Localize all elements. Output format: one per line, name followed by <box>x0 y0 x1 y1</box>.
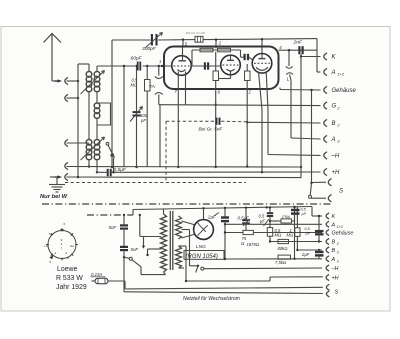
mains chain line <box>87 214 133 216</box>
svg-text:(RGN 1054): (RGN 1054) <box>186 254 218 260</box>
svg-text:A: A <box>331 257 336 263</box>
wire block leg x268 <box>266 71 268 154</box>
wire 2uF column <box>224 208 226 260</box>
V1 heater leg <box>185 72 187 105</box>
wire feed x311 <box>310 89 312 183</box>
wire A3 row <box>291 138 321 139</box>
wire B2 row bottom <box>270 241 322 243</box>
capacitor 0,5uF geh <box>291 210 300 214</box>
V2 anode <box>227 55 234 60</box>
svg-text:Ha: Ha <box>70 244 74 248</box>
terminal K top <box>324 53 337 61</box>
wire cap b2 column <box>318 215 320 243</box>
terminal K bottom <box>326 213 335 220</box>
svg-text:A: A <box>331 70 336 76</box>
svg-text:0,5: 0,5 <box>305 227 311 231</box>
terminal G2 top <box>324 102 341 110</box>
node 4 label <box>279 45 282 50</box>
label Jahr 1929 <box>56 284 87 291</box>
label tube data <box>186 31 206 35</box>
wire minusH row bottom <box>204 267 322 270</box>
terminal B3 bottom <box>326 247 340 255</box>
V3 cathode leg <box>259 72 263 173</box>
svg-text:1+2: 1+2 <box>337 72 345 77</box>
wire S row lower <box>124 292 323 294</box>
wire G2 row <box>159 104 321 107</box>
pin 7 label <box>175 89 178 94</box>
node 1 label <box>159 59 161 64</box>
tube block <box>164 47 279 90</box>
capacitor 0,5uF bus <box>108 169 111 176</box>
svg-text:LNG: LNG <box>196 244 206 250</box>
valve socket inner labels <box>44 222 74 264</box>
HV taps <box>179 246 188 282</box>
coupling capacitor C2 <box>241 54 254 60</box>
capacitor 2uF ps <box>221 218 229 222</box>
wire plusH row bottom <box>186 277 323 281</box>
wire box top right <box>191 206 313 210</box>
wire fuse right <box>108 281 125 289</box>
wire cap a3 column <box>318 249 320 259</box>
resistor Rk2 <box>213 71 219 81</box>
label 5nF a <box>109 225 117 230</box>
label 300pF <box>142 46 157 52</box>
wire 500pF col <box>135 65 137 167</box>
label R 533 W <box>56 275 83 282</box>
wire J3 to Tr2 <box>67 142 90 144</box>
valve socket pins <box>46 228 78 260</box>
label 2nF <box>293 40 303 46</box>
label Loewe <box>57 266 77 273</box>
label Bei Gr 5nF <box>199 127 224 132</box>
rectifier V4 <box>194 220 214 240</box>
transformer Tr1 secondary coil <box>94 66 100 92</box>
terminal B2 top <box>324 119 341 127</box>
wire Gehaeuse row <box>280 88 321 90</box>
svg-text:L: L <box>287 77 290 83</box>
pin anode V3 wire <box>261 38 263 54</box>
triode V1 <box>172 56 192 76</box>
svg-text:S: S <box>339 189 343 195</box>
terminal pH top <box>324 168 340 176</box>
V2 cathode leg <box>219 71 231 79</box>
V4 filament <box>198 223 208 236</box>
wire 60pF to tube block <box>143 65 173 67</box>
svg-text:Loewe: Loewe <box>57 266 77 273</box>
svg-text:G: G <box>332 104 337 110</box>
V3 grid <box>254 62 270 64</box>
wire bus y177 <box>67 176 302 178</box>
terminal S bottom <box>326 284 338 297</box>
svg-text:5nF: 5nF <box>109 225 117 230</box>
switch S mains <box>309 182 327 199</box>
V2 grid <box>223 64 239 66</box>
ground <box>49 185 65 193</box>
label 5nF b <box>131 247 139 252</box>
terminal A12 top <box>324 68 345 76</box>
capacitor 5nF gram <box>217 118 220 125</box>
box RGN 1054 <box>184 251 224 260</box>
svg-text:–H: –H <box>331 266 339 272</box>
terminal mH bottom <box>326 265 338 272</box>
svg-text:60pF: 60pF <box>131 56 143 62</box>
svg-text:µF: µF <box>260 218 265 223</box>
V3 anode <box>259 54 266 59</box>
capacitor 5nF a <box>120 225 128 228</box>
terminal mH top <box>324 152 340 160</box>
socket J3 <box>65 139 68 146</box>
wire 5nF column <box>123 215 125 292</box>
wire J2 to left rail <box>67 97 80 99</box>
V1 anode <box>179 48 187 61</box>
svg-text:300pF: 300pF <box>142 46 157 52</box>
label 0,5uF ps2 <box>259 214 269 226</box>
terminal pH bottom <box>326 275 339 282</box>
wire K drop <box>312 207 322 217</box>
svg-text:Jahr 1929: Jahr 1929 <box>56 284 87 291</box>
svg-text:K: K <box>332 214 336 220</box>
label fuse <box>91 272 106 277</box>
trimmer arrow 300pF <box>146 33 163 48</box>
wire antenna to plug <box>52 80 57 82</box>
antenna socket J1 <box>65 77 68 84</box>
wire 0,5uF column <box>245 208 247 231</box>
wire S row upper <box>125 287 323 289</box>
label 0,5uF bus <box>114 167 127 173</box>
capacitor 0,5uF ps <box>242 220 250 223</box>
svg-text:Gehäuse: Gehäuse <box>332 88 357 94</box>
svg-text:1875Ω: 1875Ω <box>247 242 260 247</box>
svg-text:1+2: 1+2 <box>337 225 343 229</box>
resistor 1M ps <box>295 228 300 237</box>
capacitor 300pF <box>152 34 157 46</box>
coupling capacitor C1 <box>191 62 222 69</box>
terminal Geh top <box>324 86 357 94</box>
fuse F1 <box>95 278 108 283</box>
resistor Ra1 <box>200 48 213 52</box>
wire K feed <box>300 54 321 177</box>
transformer Tr2 primary coil <box>86 140 92 168</box>
label 7,5k <box>275 260 286 265</box>
wire 75ohm boxed <box>270 207 295 221</box>
svg-text:3NF 12L 4,2 Völt: 3NF 12L 4,2 Völt <box>186 31 206 35</box>
anode resistor row <box>192 50 241 66</box>
power transformer primary <box>161 209 167 275</box>
pin 2 wire <box>215 38 217 48</box>
resistor Rk3 <box>245 71 251 81</box>
antenna socket J2 <box>65 94 68 101</box>
wire 80k <box>0 0 1 1</box>
trimmer arrow Tr2 <box>81 137 105 160</box>
svg-text:Netzteil für Wechselstrom: Netzteil für Wechselstrom <box>183 296 240 302</box>
svg-text:pF: pF <box>140 118 146 123</box>
wire x124 <box>123 65 125 167</box>
transformer Tr1 primary coil <box>86 64 92 140</box>
resistor 0,5M ps <box>267 228 272 237</box>
svg-text:7a: 7a <box>49 232 53 236</box>
wire bus y167 end dot <box>300 166 302 168</box>
wire A12 row <box>225 223 322 225</box>
svg-text:Bei Gr. 5nF: Bei Gr. 5nF <box>199 127 224 132</box>
wire fuse left <box>92 280 96 282</box>
wire mid bus y172.3 <box>97 171 321 174</box>
pin 5 label <box>185 42 188 47</box>
socket J4 <box>65 162 68 169</box>
antenna plug <box>55 79 63 82</box>
terminal A3 top <box>324 135 341 143</box>
ground socket J5 <box>65 173 68 180</box>
power transformer core <box>170 211 173 270</box>
heater taps <box>182 221 196 266</box>
terminal B2 bottom <box>326 239 339 247</box>
label 2uF ps <box>207 213 219 220</box>
label 1M ps <box>287 228 294 238</box>
HV winding <box>176 246 182 268</box>
label TA <box>149 84 155 90</box>
wire grid B <box>97 65 135 67</box>
V1 cathode <box>178 70 186 72</box>
label L <box>287 77 290 83</box>
resistor 75ohm <box>243 230 253 234</box>
svg-text:0,15A: 0,15A <box>91 272 103 277</box>
svg-text:B: B <box>332 121 336 127</box>
svg-text:S: S <box>335 289 339 295</box>
capacitor 2nF <box>299 46 302 54</box>
lamp box <box>195 36 203 42</box>
svg-text:A: A <box>331 222 336 228</box>
triode V2 <box>221 55 241 75</box>
label RGN 1054 <box>186 254 218 260</box>
svg-text:+H: +H <box>332 276 339 282</box>
wire 0,5M ps <box>269 236 271 243</box>
label 500pF <box>140 113 148 123</box>
wire B3 row <box>297 249 322 251</box>
triode V3 <box>252 54 272 74</box>
pin 5 wire <box>182 38 184 47</box>
svg-text:2: 2 <box>336 242 339 246</box>
wire 1M ps <box>296 207 298 251</box>
label 0,5M ps <box>275 228 282 238</box>
label 0,5uF ps <box>238 216 251 226</box>
resistor 75ohm boxed <box>281 215 292 223</box>
svg-text:Gehäuse: Gehäuse <box>332 231 354 237</box>
antenna <box>44 34 62 82</box>
svg-text:80kΩ: 80kΩ <box>278 246 288 251</box>
svg-text:MΩ: MΩ <box>287 233 294 238</box>
wire earth stub <box>50 177 58 184</box>
svg-text:B: B <box>332 240 336 246</box>
svg-text:5nF: 5nF <box>131 247 139 252</box>
trimmer arrow Tr1 <box>81 71 105 95</box>
V4 anode wire <box>203 208 205 219</box>
svg-text:A: A <box>331 137 336 143</box>
svg-text:+H: +H <box>332 170 341 176</box>
wire 75ohm <box>224 231 322 233</box>
label Netzteil <box>183 296 240 302</box>
wire J1 to left rail <box>67 80 80 82</box>
wire A top <box>112 39 317 40</box>
capacitor 500pF <box>133 112 141 115</box>
svg-text:MΩ: MΩ <box>275 233 282 238</box>
label 0,5uF b2 <box>305 227 311 236</box>
wire A right corner <box>317 39 321 72</box>
V4 side wires <box>0 0 1 1</box>
jack L <box>286 49 293 138</box>
wire box top <box>133 209 191 216</box>
wire minusH row <box>268 154 321 157</box>
label 2uF a3 <box>301 252 310 257</box>
svg-text:0,5: 0,5 <box>301 208 307 212</box>
wire 0,5M <box>146 65 148 167</box>
svg-text:–H: –H <box>331 154 340 160</box>
coupling coil M1 <box>94 91 100 139</box>
resistor 80k <box>278 239 289 243</box>
wire Rk3 down <box>246 64 248 168</box>
wire A left drop <box>111 40 113 167</box>
heater switch <box>190 265 204 273</box>
terminal A3 bottom <box>326 256 340 263</box>
wire block out 4 <box>279 49 318 51</box>
left rail wire <box>78 64 89 177</box>
coupling coil M1 loop <box>97 103 111 125</box>
capacitor 60pF <box>138 62 141 71</box>
label Nur bei W <box>40 194 68 200</box>
wire 7,5k row A3 <box>225 258 322 260</box>
capacitor 2uF a3 <box>315 252 324 255</box>
terminal S top <box>328 179 343 202</box>
label 80k <box>278 246 288 251</box>
label LNG <box>196 244 206 250</box>
switch S2 selector <box>123 214 166 275</box>
V1 grid <box>174 65 190 67</box>
trimmer arrow 500pF <box>130 107 143 122</box>
svg-text:µF: µF <box>306 231 311 235</box>
V3 cathode <box>256 67 268 70</box>
label 75 ohm <box>241 236 247 246</box>
dashed gramophone link <box>65 121 247 182</box>
terminal Geh bottom <box>326 230 353 237</box>
label 0,5 MOhm <box>131 78 138 88</box>
svg-text:7,5kΩ: 7,5kΩ <box>275 260 286 265</box>
TA jack <box>155 77 163 168</box>
pin 2b label <box>248 90 252 95</box>
svg-text:Ω: Ω <box>241 241 244 246</box>
pin 2 label <box>218 40 222 45</box>
pin 8 label <box>218 89 221 94</box>
valve socket diagram <box>48 231 76 259</box>
svg-text:B: B <box>332 248 336 254</box>
wire bus y167 <box>67 166 302 168</box>
svg-text:Nur bei W: Nur bei W <box>40 194 68 200</box>
svg-text:1: 1 <box>159 59 161 64</box>
resistor 0,5M grid <box>145 80 151 92</box>
ground plug <box>55 175 63 178</box>
transformer Tr2 secondary coil <box>94 140 100 174</box>
capacitor 0,5uF b2 <box>315 231 324 234</box>
svg-text:0,5µF: 0,5µF <box>238 216 250 221</box>
V2 cathode <box>227 69 235 71</box>
resistor 7,5k <box>278 255 291 259</box>
svg-text:µF: µF <box>302 212 307 216</box>
svg-text:R 533 W: R 533 W <box>56 275 83 282</box>
wire B2 row <box>247 121 320 124</box>
label 1875 ohm <box>247 242 260 247</box>
svg-text:2µF: 2µF <box>301 252 310 257</box>
V1 cathode leg <box>177 72 179 167</box>
capacitor 0,5uF ps2 <box>267 213 273 216</box>
switch S1 <box>106 142 114 172</box>
resistor Ra2 <box>218 48 231 52</box>
label 60pF <box>131 56 143 62</box>
svg-text:2nF: 2nF <box>293 40 303 46</box>
terminal A12 bottom <box>326 221 343 229</box>
section separator chain line <box>42 203 332 205</box>
wire Rk2 down <box>215 52 217 167</box>
heater winding <box>176 216 182 239</box>
wire 0,5uF2 column <box>269 206 271 227</box>
svg-text:+N: +N <box>44 244 48 248</box>
wire 0,5uF geh column <box>293 206 295 260</box>
capacitor 5nF b <box>120 247 128 250</box>
svg-text:(75Ω): (75Ω) <box>282 215 290 219</box>
TA jack top wire <box>158 65 160 76</box>
wire J4 <box>67 166 98 168</box>
label 0,5uF geh <box>301 208 307 217</box>
